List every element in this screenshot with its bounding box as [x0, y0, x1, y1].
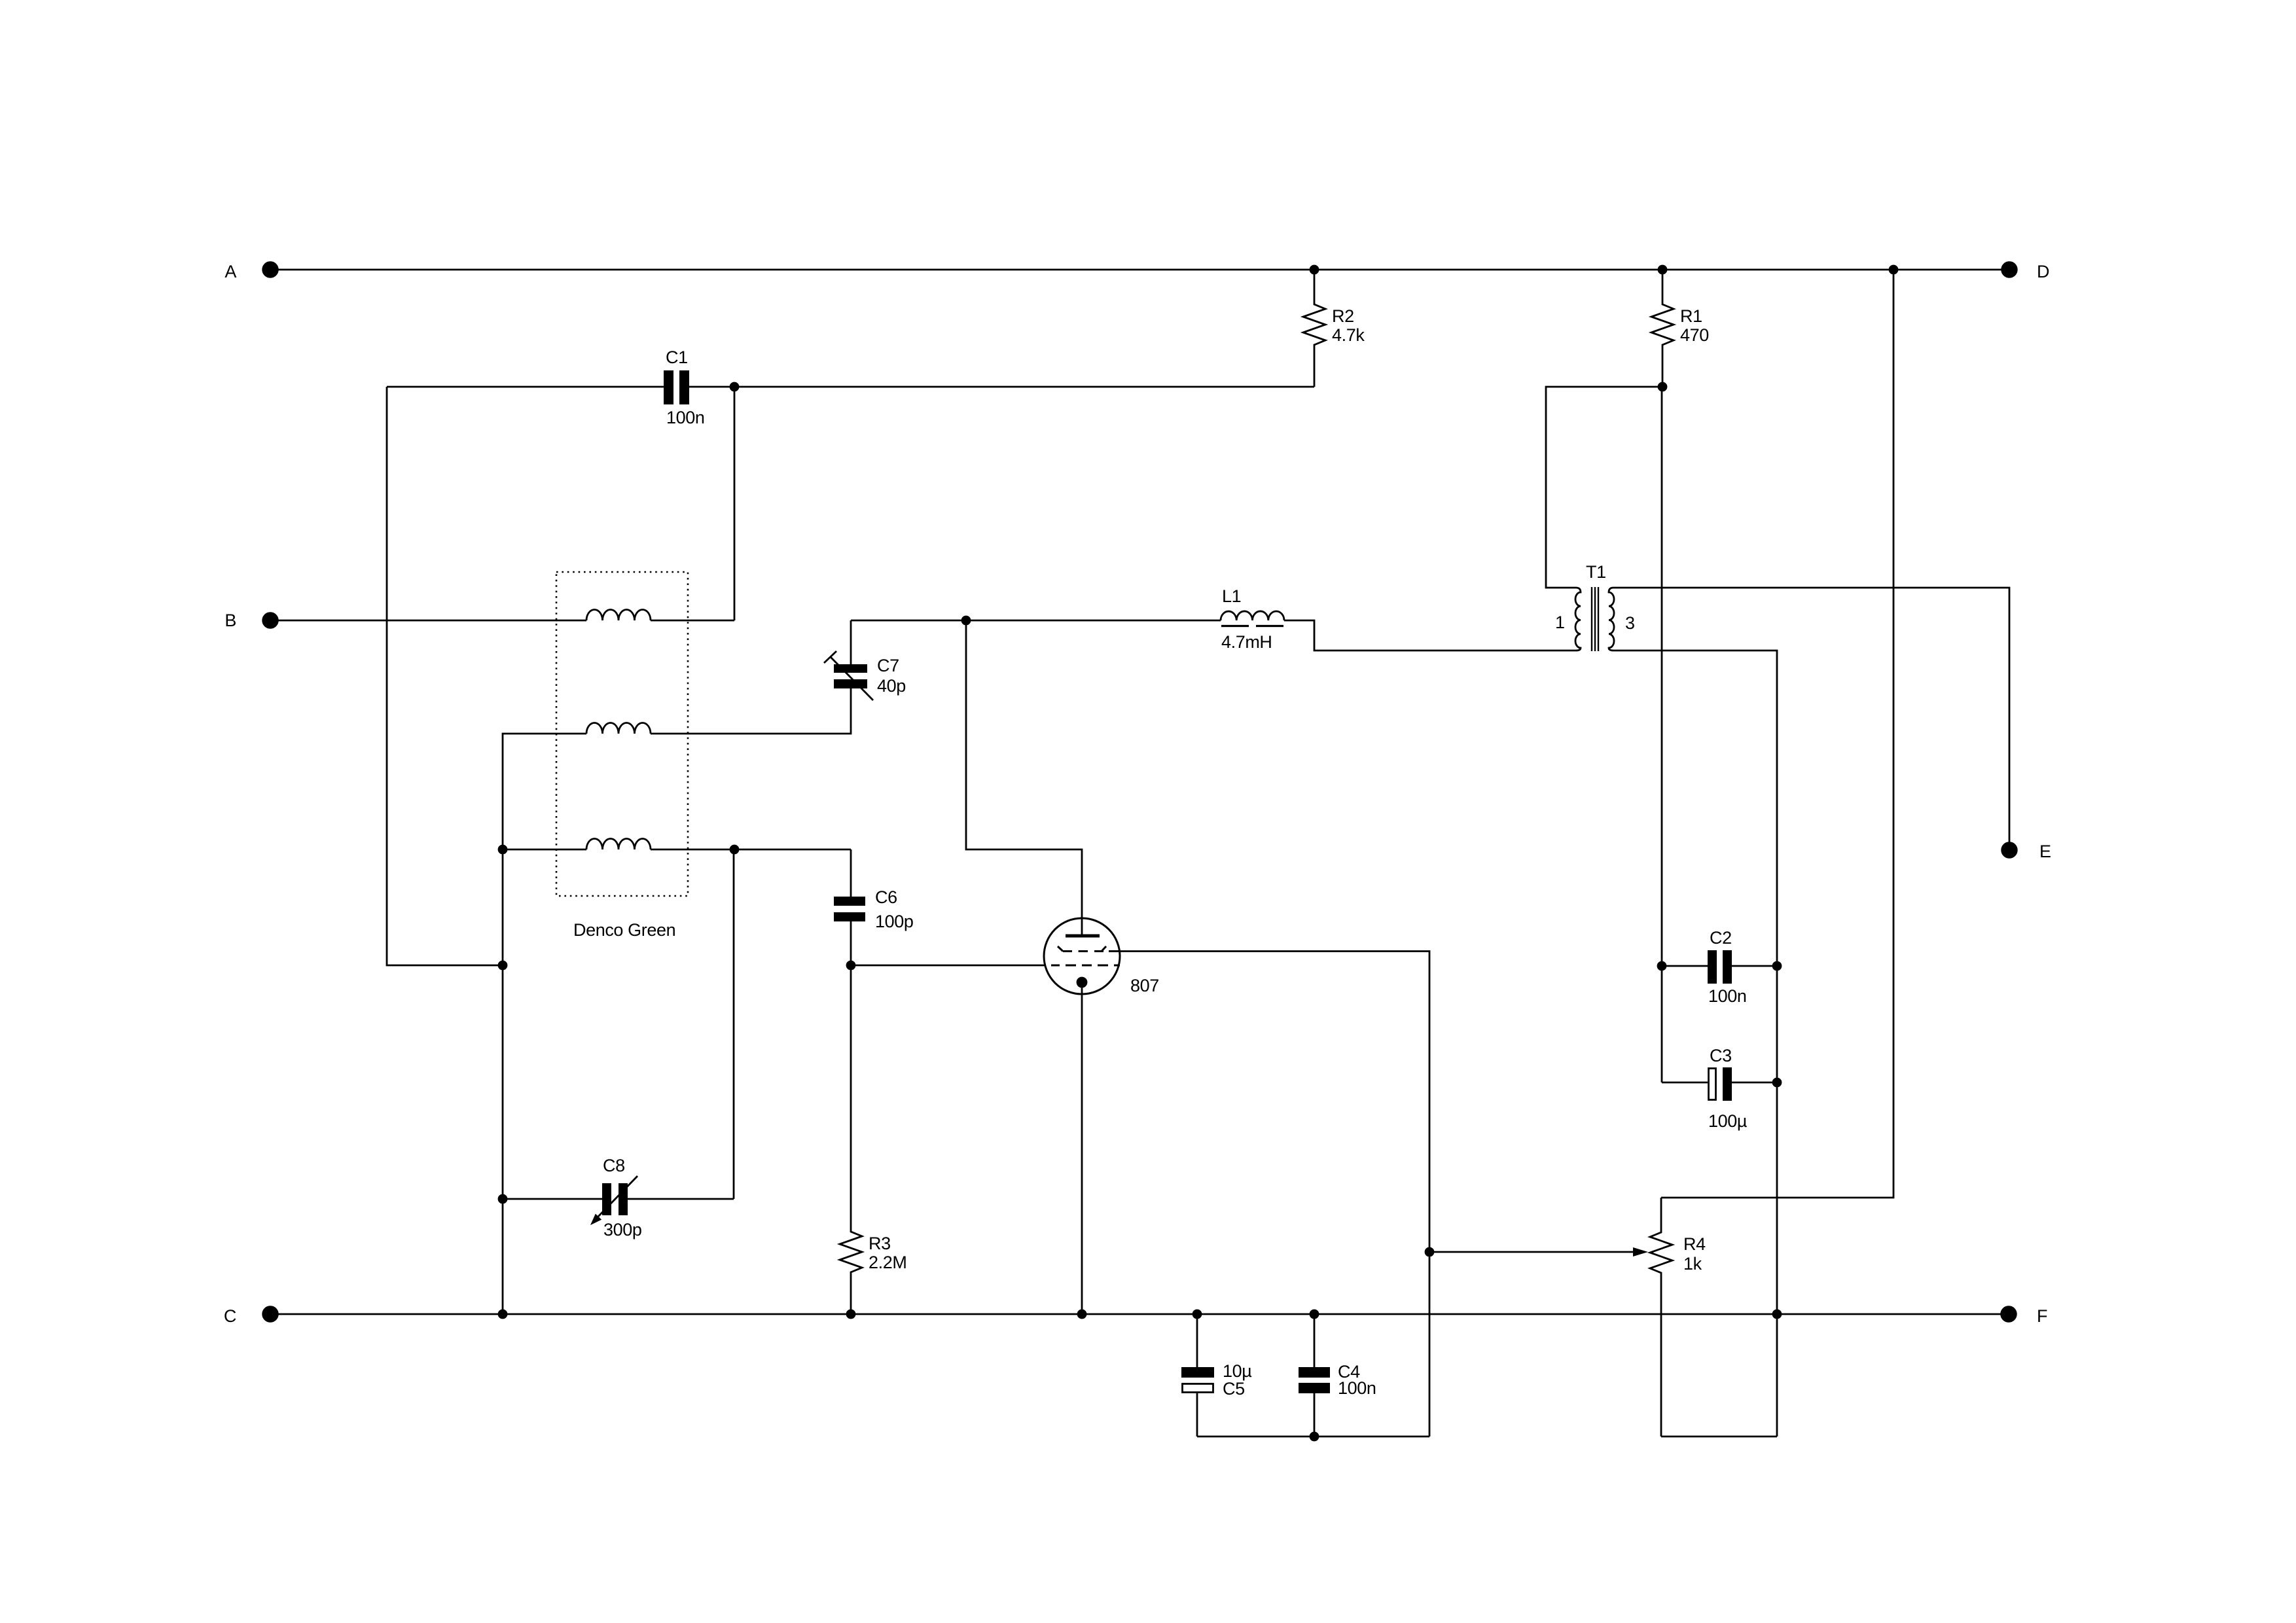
svg-text:C: C — [224, 1306, 236, 1326]
capacitor C8 left lead — [503, 1198, 602, 1200]
wire top bus A to D — [270, 269, 2009, 271]
wire C1 left drop — [387, 387, 503, 965]
capacitor C3 — [1662, 1082, 1708, 1084]
svg-text:D: D — [2037, 262, 2049, 281]
svg-text:C7: C7 — [877, 656, 899, 675]
wire middle winding left drop — [503, 734, 586, 1314]
wire wiper arrow — [1429, 1251, 1635, 1253]
wire R4 bottom return — [1661, 1436, 1777, 1438]
svg-text:C8: C8 — [603, 1156, 625, 1175]
wire middle winding right to C7 bottom — [651, 688, 851, 734]
node D — [2002, 262, 2017, 277]
wire C7 top row to L1 — [851, 620, 1221, 622]
svg-text:B: B — [224, 611, 236, 630]
svg-text:300p: 300p — [603, 1220, 641, 1240]
tube 807 envelope — [1044, 918, 1120, 994]
svg-text:807: 807 — [1130, 976, 1159, 995]
svg-text:L1: L1 — [1222, 586, 1241, 606]
svg-text:4.7k: 4.7k — [1332, 325, 1365, 345]
svg-text:A: A — [224, 262, 236, 281]
svg-text:10µ: 10µ — [1223, 1361, 1251, 1381]
svg-text:C6: C6 — [875, 887, 897, 907]
svg-text:T1: T1 — [1586, 562, 1606, 582]
junction bottom winding left — [499, 846, 507, 853]
capacitor C2 — [1662, 965, 1708, 967]
capacitor C4 top lead — [1314, 1314, 1316, 1367]
transformer T1 core — [1591, 587, 1592, 651]
junction C1 right — [730, 383, 738, 391]
resistor R3 — [840, 965, 862, 1314]
wire anode drop — [966, 620, 1082, 935]
junction C2 left — [1658, 962, 1666, 970]
coil box middle winding — [586, 723, 651, 734]
junction C8 left — [499, 1195, 507, 1203]
svg-text:40p: 40p — [877, 676, 906, 696]
wire screen run — [1120, 952, 1429, 1437]
svg-text:100n: 100n — [666, 408, 704, 427]
wire cathode drop — [1081, 982, 1083, 1314]
node E — [2002, 843, 2017, 858]
svg-text:C2: C2 — [1710, 928, 1732, 948]
inductor L1 — [1221, 611, 1284, 620]
wire B line — [270, 620, 586, 622]
svg-text:470: 470 — [1680, 325, 1709, 345]
junction R1 bottom — [1659, 383, 1666, 391]
capacitor C5 — [1181, 1367, 1214, 1378]
junction anode riser — [962, 616, 970, 624]
capacitor C6 — [834, 897, 865, 906]
svg-text:R1: R1 — [1680, 306, 1702, 326]
junction bottom bus R3 — [847, 1310, 855, 1318]
junction screen column wiper tap — [1426, 1248, 1433, 1256]
svg-text:100p: 100p — [875, 912, 913, 931]
capacitor C6 top lead — [850, 849, 852, 897]
capacitor C4 — [1299, 1367, 1330, 1378]
junction bottom winding right — [730, 846, 738, 853]
svg-text:1k: 1k — [1683, 1254, 1702, 1274]
resistor R2 — [1303, 270, 1325, 387]
svg-text:2.2M: 2.2M — [869, 1253, 906, 1272]
capacitor C8 — [602, 1183, 611, 1215]
junction bottom bus C4 — [1310, 1310, 1318, 1318]
junction C2 right — [1773, 962, 1781, 970]
wire bottom winding leads — [503, 849, 586, 851]
svg-text:R3: R3 — [869, 1234, 891, 1253]
junction C3 right — [1773, 1079, 1781, 1086]
transformer T1 primary winding — [1575, 588, 1581, 651]
svg-text:100n: 100n — [1708, 986, 1746, 1006]
capacitor C7 top lead — [850, 620, 852, 664]
junction bottom bus C5 — [1193, 1310, 1201, 1318]
wire screen column — [1661, 387, 1663, 1082]
node F — [2001, 1307, 2017, 1322]
junction top of right drop wire — [1890, 266, 1897, 274]
node B — [263, 613, 278, 628]
resistor R1 — [1651, 270, 1674, 387]
wire B riser — [734, 387, 736, 620]
junction bottom bus cathode — [1078, 1310, 1086, 1318]
svg-text:Denco Green: Denco Green — [573, 920, 675, 940]
wire secondary bottom return — [1613, 651, 1777, 1436]
junction bottom bus T1 return — [1773, 1310, 1781, 1318]
tube 807 screen grid — [1058, 946, 1063, 952]
capacitor C5 top lead — [1196, 1314, 1198, 1367]
junction on grid-leak column — [499, 961, 507, 969]
wire L1 to T1 primary — [1284, 620, 1576, 651]
wire R1 bottom to T1 — [1546, 387, 1662, 588]
transformer T1 secondary winding — [1609, 588, 1614, 651]
svg-text:100n: 100n — [1338, 1378, 1376, 1398]
svg-text:C5: C5 — [1223, 1379, 1245, 1399]
junction return loop C4 — [1310, 1433, 1318, 1440]
svg-text:C3: C3 — [1710, 1046, 1732, 1065]
resistor R4 — [1650, 1198, 1672, 1436]
wire C1 row — [689, 386, 1314, 388]
capacitor C1 — [664, 370, 673, 404]
junction bottom bus x768 — [499, 1310, 507, 1318]
junction top of R2 — [1310, 266, 1318, 274]
wire decoupling return loop — [1197, 1436, 1429, 1438]
junction top of R1 — [1659, 266, 1666, 274]
node C — [263, 1307, 278, 1322]
wire C8 right riser — [733, 849, 735, 1199]
svg-text:3: 3 — [1625, 613, 1635, 633]
svg-text:R4: R4 — [1683, 1234, 1706, 1254]
junction grid node — [847, 961, 855, 969]
coil box top winding — [586, 610, 651, 620]
dotted coil unit box — [556, 572, 688, 896]
svg-text:E: E — [2039, 842, 2051, 861]
tube 807 anode — [1066, 935, 1100, 938]
wire secondary top to E — [1613, 588, 2009, 850]
wire R4 top run — [1661, 270, 1893, 1198]
svg-text:C1: C1 — [666, 348, 688, 367]
svg-text:F: F — [2037, 1306, 2047, 1326]
node A — [263, 262, 278, 277]
svg-text:R2: R2 — [1332, 306, 1354, 326]
capacitor C7 — [834, 664, 867, 673]
coil box bottom winding — [586, 839, 651, 849]
tube 807 control grid — [1051, 965, 1120, 967]
svg-text:1: 1 — [1555, 613, 1565, 632]
svg-text:100µ: 100µ — [1708, 1111, 1747, 1131]
wire bottom bus C to F — [270, 1313, 2009, 1315]
wire grid input — [851, 965, 1045, 967]
tube 807 cathode — [1077, 978, 1086, 987]
svg-text:4.7mH: 4.7mH — [1221, 632, 1272, 652]
